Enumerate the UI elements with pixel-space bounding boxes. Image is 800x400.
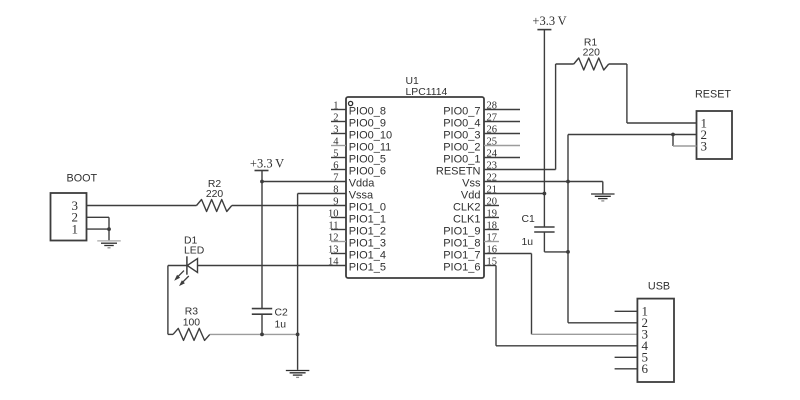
wire BOOT pin3 to R2 [87, 205, 197, 207]
svg-text:6: 6 [642, 361, 649, 376]
wire +3.3V top down to C1 [543, 30, 545, 227]
U1 pin 26 stub (PIO0_3) [484, 133, 520, 135]
svg-text:PIO0_10: PIO0_10 [349, 130, 392, 142]
resistor R2 body [197, 200, 232, 212]
capacitor C1 plates [534, 226, 554, 228]
svg-text:PIO1_2: PIO1_2 [349, 226, 386, 238]
svg-text:19: 19 [487, 208, 498, 219]
svg-text:PIO1_8: PIO1_8 [443, 238, 480, 250]
wire RESET pin2 long [568, 134, 697, 136]
wire BOOT pin2 down to pin1 node [108, 217, 110, 229]
ground symbol at BOOT [97, 240, 121, 242]
svg-text:4: 4 [333, 136, 339, 147]
svg-text:PIO0_6: PIO0_6 [349, 166, 386, 178]
svg-text:10: 10 [328, 208, 339, 219]
wire R3 left lead [168, 333, 173, 335]
power symbol +3.3V left bar [255, 170, 269, 172]
svg-text:CLK2: CLK2 [453, 202, 481, 214]
U1 pin 1 stub (PIO0_8) [331, 109, 346, 111]
wire +3.3V left down to C2 [261, 171, 263, 309]
node junction +3.3V / Vdd [543, 192, 547, 196]
svg-text:CLK1: CLK1 [453, 214, 481, 226]
USB pin6 stub [615, 368, 638, 370]
U1 pin 5 stub (PIO0_5) [331, 157, 346, 159]
wire GND net to USB pin2 [568, 322, 637, 324]
svg-text:USB: USB [648, 281, 670, 293]
wire U1 pin15 down [495, 266, 497, 346]
node junction Vssa / R3 / C2 net [296, 333, 300, 337]
svg-text:11: 11 [328, 220, 338, 231]
svg-text:PIO0_1: PIO0_1 [443, 154, 480, 166]
power symbol +3.3V top bar [537, 29, 551, 31]
svg-text:1: 1 [72, 222, 79, 237]
node junction C1 / GND net [566, 250, 570, 254]
svg-text:26: 26 [487, 124, 498, 135]
svg-text:6: 6 [333, 160, 338, 171]
svg-text:PIO1_4: PIO1_4 [349, 250, 386, 262]
svg-text:BOOT: BOOT [67, 173, 98, 185]
wire R1 right down [626, 64, 628, 123]
U1 pin 2 stub (PIO0_9) [331, 121, 346, 123]
svg-text:3: 3 [333, 124, 338, 135]
wire R1 to RESET pin1 [627, 122, 697, 124]
IC U1 LPC1114 body [346, 97, 484, 278]
wire R2 to U1 pin9 PIO1_0 [232, 205, 346, 207]
wire R1 right lead [609, 63, 627, 65]
svg-text:Vdd: Vdd [461, 190, 481, 202]
svg-text:1u: 1u [522, 237, 534, 248]
svg-text:PIO1_9: PIO1_9 [443, 226, 480, 238]
svg-text:PIO0_7: PIO0_7 [443, 106, 480, 118]
wire U1 pin14 PIO1_5 to LED anode [198, 265, 347, 267]
wire LED cathode left [168, 265, 187, 267]
svg-text:220: 220 [206, 189, 224, 200]
U1 pin-1 indicator circle [349, 101, 353, 105]
U1 pin 10 stub (PIO1_1) [331, 217, 346, 219]
diode D1 emission arrow 1 [174, 271, 184, 281]
svg-text:PIO0_8: PIO0_8 [349, 106, 386, 118]
U1 pin 28 stub (PIO0_7) [484, 109, 520, 111]
svg-text:RESETN: RESETN [436, 166, 481, 178]
wire Vssa down to ground [297, 194, 299, 370]
wire R3 to C2/Vssa net (gray) [210, 333, 298, 335]
U1 pin 25 stub (PIO0_2) [484, 145, 520, 147]
svg-text:Vss: Vss [462, 178, 481, 190]
svg-text:12: 12 [328, 232, 339, 243]
wire C2 bottom to net [261, 314, 263, 334]
wire BOOT pin1 right [87, 228, 110, 230]
svg-text:25: 25 [487, 136, 498, 147]
svg-text:24: 24 [487, 148, 498, 159]
svg-text:PIO1_0: PIO1_0 [349, 202, 386, 214]
svg-text:220: 220 [583, 48, 601, 59]
svg-text:+3.3 V: +3.3 V [250, 156, 284, 170]
svg-text:C1: C1 [522, 214, 536, 225]
USB pin1 stub [615, 310, 638, 312]
svg-text:PIO0_3: PIO0_3 [443, 130, 480, 142]
svg-text:PIO1_3: PIO1_3 [349, 238, 386, 250]
U1 pin 27 stub (PIO0_4) [484, 121, 520, 123]
U1 pin 6 stub (PIO0_6) [331, 169, 346, 171]
U1 pin 4 stub (PIO0_11) [331, 145, 346, 147]
svg-text:PIO0_4: PIO0_4 [443, 118, 480, 130]
wire R1 left down to RESETN [555, 64, 557, 170]
svg-text:Vssa: Vssa [349, 190, 374, 202]
svg-text:3: 3 [701, 138, 708, 153]
diode D1 triangle [187, 259, 197, 273]
U1 pin 12 stub (PIO1_3) [331, 241, 346, 243]
resistor R1 body [574, 58, 609, 70]
node junction RESET pin2/pin3 [671, 133, 675, 137]
svg-text:U1: U1 [406, 76, 420, 87]
svg-text:LPC1114: LPC1114 [406, 87, 448, 98]
wire BOOT pin2 right [87, 216, 110, 218]
svg-text:PIO1_6: PIO1_6 [443, 262, 480, 274]
svg-text:Vdda: Vdda [349, 178, 376, 190]
svg-text:13: 13 [328, 244, 339, 255]
svg-text:PIO0_5: PIO0_5 [349, 154, 386, 166]
U1 pin 18 stub (PIO1_9) [484, 229, 499, 231]
svg-text:5: 5 [333, 148, 338, 159]
svg-text:R3: R3 [185, 306, 199, 317]
wire GND net vertical (RESET pin2 to USB pin2) [567, 135, 569, 323]
node junction C2 bottom [260, 333, 264, 337]
svg-text:LED: LED [184, 246, 204, 257]
node junction +3.3V / Vdda [260, 180, 264, 184]
wire U1 pin22 Vss right [484, 181, 603, 183]
wire LED down to R3 [167, 266, 169, 335]
wire U1 pin8 Vssa left [298, 193, 346, 195]
wire U1 pin16 down [531, 254, 533, 335]
wire U1 pin16 PIO1_7 right [484, 253, 532, 255]
wire to USB pin4 [496, 345, 637, 347]
wire RESET pin2 down to pin3 [672, 135, 674, 147]
U1 pin 13 stub (PIO1_4) [331, 253, 346, 255]
svg-text:27: 27 [487, 112, 498, 123]
ground symbol near RESET [591, 193, 615, 195]
U1 pin 19 stub (CLK1) [484, 217, 499, 219]
U1 pin 11 stub (PIO1_2) [331, 229, 346, 231]
wire Vss corner down to ground [602, 182, 604, 194]
svg-text:RESET: RESET [695, 89, 731, 101]
svg-text:100: 100 [183, 317, 201, 328]
svg-text:18: 18 [487, 220, 498, 231]
capacitor C2 plates [252, 308, 272, 310]
resistor R3 body [173, 328, 210, 340]
wire RESET pin3 (gray) [673, 145, 697, 147]
wire +3.3V to U1 pin7 Vdda [262, 181, 346, 183]
node junction Vss / RESET-pin2 net [566, 180, 570, 184]
svg-text:PIO0_11: PIO0_11 [349, 142, 392, 154]
svg-text:PIO1_1: PIO1_1 [349, 214, 386, 226]
svg-text:28: 28 [487, 100, 498, 111]
wire U1 pin21 Vdd to +3.3V [484, 193, 544, 195]
svg-text:20: 20 [487, 196, 498, 207]
svg-text:PIO1_5: PIO1_5 [349, 262, 386, 274]
svg-text:1: 1 [333, 100, 338, 111]
ground symbol bottom center [286, 370, 310, 372]
U1 pin 3 stub (PIO0_10) [331, 133, 346, 135]
node junction BOOT pins 1-2 [107, 227, 111, 231]
U1 pin 17 stub (PIO1_8) [484, 241, 499, 243]
diode D1 emission arrow 2 [179, 276, 189, 286]
connector J-BOOT body [51, 193, 87, 241]
wire U1 pin15 PIO1_6 right [484, 265, 496, 267]
svg-text:17: 17 [487, 232, 498, 243]
svg-text:2: 2 [333, 112, 338, 123]
svg-text:1u: 1u [275, 319, 287, 330]
wire C1 bottom right to GND net [544, 251, 568, 253]
wire BOOT node down to ground [108, 229, 110, 240]
svg-text:PIO1_7: PIO1_7 [443, 250, 480, 262]
svg-text:PIO0_2: PIO0_2 [443, 142, 480, 154]
svg-text:PIO0_9: PIO0_9 [349, 118, 386, 130]
U1 pin 20 stub (CLK2) [484, 205, 499, 207]
wire R1 left lead [556, 63, 574, 65]
wire U1 pin23 RESETN [484, 169, 556, 171]
wire to USB pin3 (gray) [532, 333, 638, 335]
diode D1 cathode bar [186, 256, 188, 274]
USB pin5 stub [615, 356, 638, 358]
connector J-USB body [637, 299, 674, 382]
svg-text:C2: C2 [275, 307, 289, 318]
wire C1 bottom down [543, 232, 545, 252]
connector J-RESET body [697, 111, 733, 159]
U1 pin 24 stub (PIO0_1) [484, 157, 520, 159]
svg-text:+3.3 V: +3.3 V [532, 14, 566, 28]
